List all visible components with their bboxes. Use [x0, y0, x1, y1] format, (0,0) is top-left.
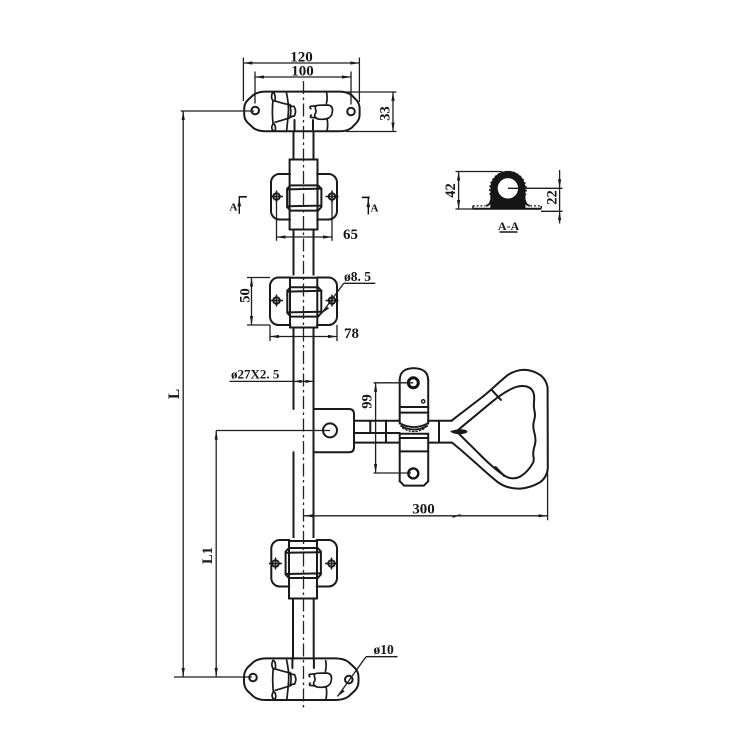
bracket 1 clamp collar [287, 185, 321, 210]
dimension L [166, 111, 254, 677]
svg-text:99: 99 [360, 394, 376, 409]
dimension 50 [238, 278, 271, 326]
dimension 42 [443, 172, 502, 210]
label A-A [498, 219, 520, 233]
svg-text:L1: L1 [200, 547, 216, 564]
svg-text:33: 33 [378, 106, 394, 121]
bottom plate right hole [345, 676, 353, 684]
tube sleeve at bracket 2 [290, 278, 317, 328]
tube hides bracket edge [291, 172, 317, 222]
handle shaft right of bracket [428, 421, 452, 443]
section marker A right [362, 197, 379, 214]
bottom plate cam profile right [309, 661, 331, 699]
svg-text:50: 50 [238, 288, 254, 303]
handle bracket small rivet [422, 400, 425, 403]
dimension 100 [255, 64, 351, 105]
section marker A left [230, 197, 247, 214]
guide bracket 1 plate [271, 174, 337, 220]
dimension 99 [360, 383, 414, 473]
svg-text:22: 22 [545, 190, 561, 205]
guide bracket 2 plate [270, 278, 337, 326]
rod segment top plate to tube 1 [294, 132, 314, 160]
dimension 78 [270, 325, 359, 342]
rod between hub and bracket 3 [294, 452, 314, 541]
centerline of lock rod [303, 81, 305, 711]
grip ferrule tick lower [496, 467, 505, 476]
handle hub block on rod [314, 409, 355, 452]
top cam end plate outline [244, 92, 359, 132]
top plate left hole [251, 107, 259, 115]
bottom plate cam profile left [272, 660, 296, 699]
handle grip inner contour [457, 386, 536, 478]
dimension 33 [344, 92, 397, 132]
svg-text:A-A: A-A [498, 219, 520, 233]
svg-text:42: 42 [443, 183, 459, 198]
bracket 1 right hole [326, 191, 339, 203]
dimension L1 [200, 431, 330, 678]
bracket 3 left hole [269, 558, 282, 570]
svg-text:78: 78 [344, 326, 359, 342]
top plate right hole [347, 108, 355, 116]
dimension 300 [304, 469, 548, 520]
svg-text:300: 300 [412, 502, 435, 518]
rod stubs inside bottom plate [292, 659, 314, 668]
rod segment inside top plate [295, 120, 314, 131]
top plate cam profile right [310, 93, 332, 131]
rod between bracket 2 and handle hub [294, 328, 314, 453]
rod between bracket 3 and bottom plate [293, 599, 314, 660]
svg-text:65: 65 [343, 227, 358, 243]
svg-text:A: A [230, 202, 238, 214]
svg-text:L: L [166, 389, 183, 399]
bracket 2 left hole [270, 295, 283, 307]
svg-text:ø8. 5: ø8. 5 [344, 269, 371, 284]
dimension 120 [243, 50, 359, 103]
handle grip outer contour [452, 370, 548, 489]
bracket 3 right hole [325, 558, 338, 570]
dimension 22 [541, 170, 563, 224]
svg-text:A: A [371, 203, 379, 215]
bracket 2 clamp collar [287, 287, 321, 316]
handle bracket bottom hole [408, 468, 418, 478]
rod between bracket 1 and bracket 2 [294, 230, 314, 278]
bracket 1 left hole [270, 191, 283, 203]
svg-text:ø10: ø10 [374, 642, 395, 657]
grip ferrule tick upper [492, 391, 501, 400]
tube sleeve at bracket 1 [290, 160, 318, 230]
bottom cam end plate outline [244, 658, 359, 700]
svg-text:100: 100 [291, 64, 314, 80]
bottom plate left hole [249, 674, 257, 682]
handle link bars hub to bracket [354, 421, 400, 443]
handle bracket plate [400, 368, 429, 486]
handle bracket top pivot hole [408, 378, 418, 388]
tube hides bracket edge [291, 276, 316, 328]
label diameter 27X2.5 tube with leader [230, 367, 314, 384]
grip vertex dark leaf [451, 430, 467, 434]
svg-text:ø27X2. 5: ø27X2. 5 [231, 367, 280, 382]
guide bracket 3 plate [271, 540, 337, 587]
section A-A circle center line [508, 187, 563, 189]
bracket 3 clamp collar [286, 548, 321, 578]
section A-A omega clamp body [473, 171, 541, 208]
top plate cam profile left [272, 92, 296, 131]
tube hides bracket edge [290, 538, 316, 589]
label diameter 8.5 with leader [322, 269, 376, 314]
tube sleeve at bracket 3 [289, 541, 317, 599]
label diameter 10 with leader [338, 642, 398, 697]
dimension 65 [277, 201, 359, 243]
bracket 2 right hole [326, 295, 339, 307]
